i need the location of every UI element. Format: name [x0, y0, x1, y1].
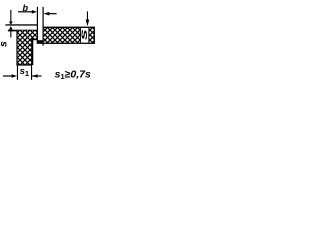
b dimension line left + arrow — [18, 11, 32, 12]
svg-text:s1≥0,7s: s1≥0,7s — [55, 68, 91, 81]
dimension arrow up (left) — [9, 26, 13, 30]
gap edge line right (right plate end) — [43, 7, 44, 46]
arrow down onto right plate — [87, 11, 88, 20]
solder fillet (black blob in gap bottom) — [37, 40, 44, 44]
svg-text:s: s — [79, 29, 90, 40]
dimension arrow down (left, sheet thickness) — [10, 10, 11, 22]
left thin sheet top line — [5, 24, 37, 25]
white label window in right plate — [81, 28, 89, 43]
gap edge line left (left piece end) — [37, 7, 38, 44]
s1 dimension extension lines — [17, 66, 18, 80]
right plate (thickness s) — [44, 27, 95, 44]
svg-text:s: s — [0, 41, 9, 47]
b dimension line right + arrow — [49, 13, 56, 14]
left L-piece hatch (vertical bar + horizontal leg) — [17, 31, 37, 66]
left piece outline edges — [16, 31, 17, 66]
left piece top edge (thick line2) — [8, 30, 38, 32]
s1 dimension line + arrows — [3, 75, 13, 76]
